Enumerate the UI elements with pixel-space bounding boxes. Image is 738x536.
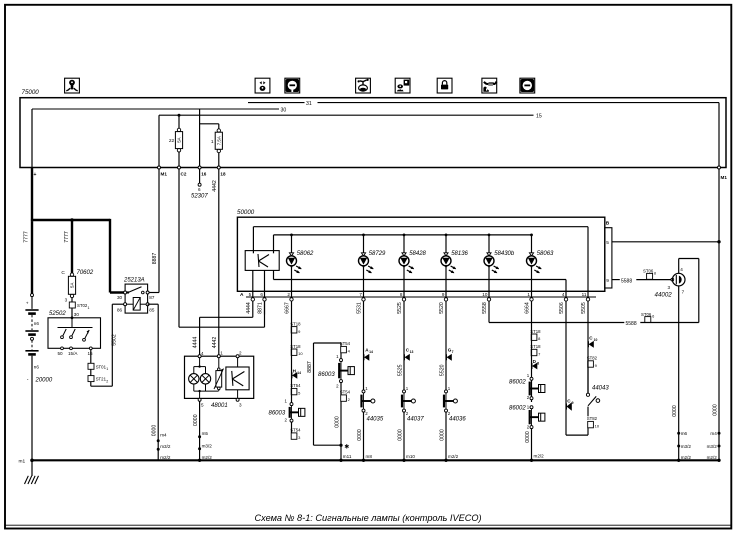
svg-text:4: 4 (562, 292, 565, 297)
svg-text:ST01: ST01 (96, 364, 107, 369)
svg-text:C: C (61, 270, 65, 276)
wire 5506 column with diode C9 (565, 315, 567, 436)
fuse 1 7.5A (218, 124, 220, 129)
terminal 5 of 50000 (251, 298, 254, 301)
pin 4 of 48001 (198, 355, 201, 358)
svg-text:8: 8 (537, 361, 539, 365)
svg-text:1: 1 (527, 292, 530, 297)
pin 1 of 48001 (217, 355, 220, 358)
svg-text:30: 30 (281, 107, 287, 113)
wire 30 drop to terminal 16 with bracket (199, 109, 201, 168)
terminal C2 (178, 166, 181, 169)
pressure switch 86003 second (290, 403, 293, 406)
svg-text:7777: 7777 (24, 231, 30, 243)
svg-text:ST18: ST18 (290, 344, 301, 349)
svg-text:25213A: 25213A (123, 278, 145, 284)
svg-text:13: 13 (410, 350, 414, 354)
svg-text:3: 3 (668, 285, 671, 290)
relay 25213A box (125, 284, 148, 313)
wire 4444 terminal 5 to 48001 pin 4 (252, 315, 254, 318)
svg-text:86003: 86003 (269, 411, 286, 417)
svg-text:1: 1 (211, 139, 214, 145)
svg-text:m8: m8 (366, 454, 373, 459)
svg-text:5A: 5A (177, 137, 182, 142)
wire 0000 below 44037 (403, 412, 405, 460)
svg-text:87: 87 (149, 295, 155, 300)
icon padlock (437, 78, 452, 93)
svg-text:6667: 6667 (285, 302, 291, 314)
svg-text:44002: 44002 (655, 291, 673, 298)
pin 2 of 48001 (236, 355, 239, 358)
svg-text:4442: 4442 (212, 180, 218, 192)
svg-text:6: 6 (260, 292, 263, 297)
fuse 22 5A (178, 115, 180, 128)
svg-text:0000: 0000 (193, 414, 199, 426)
svg-text:m3/2: m3/2 (707, 444, 718, 449)
svg-text:-: - (27, 377, 29, 383)
svg-text:58428: 58428 (409, 251, 426, 257)
wire 8887 from M1 to relay 87 (158, 169, 160, 293)
wire 30 left drop to + terminal (31, 109, 33, 168)
svg-text:1: 1 (220, 350, 223, 355)
terminal 10 of 50000 (487, 298, 490, 301)
svg-text:ST54: ST54 (340, 341, 351, 346)
svg-text:9: 9 (606, 278, 609, 284)
wire column 44037 (403, 315, 405, 390)
svg-text:m4: m4 (710, 431, 717, 436)
svg-text:58729: 58729 (369, 251, 386, 257)
svg-text:20000: 20000 (35, 378, 53, 384)
pin 3 of 48001 (236, 398, 239, 401)
icon cab tilt (255, 78, 270, 93)
svg-text:5520: 5520 (439, 302, 445, 314)
wire 0000 from 48001 pin 5 to bus (199, 401, 201, 460)
svg-text:0000: 0000 (525, 431, 531, 443)
splice m4 left (157, 439, 160, 442)
svg-text:+: + (26, 302, 29, 307)
svg-text:0000: 0000 (151, 425, 157, 437)
svg-text:ST18: ST18 (290, 321, 301, 326)
svg-text:M1: M1 (161, 172, 168, 177)
relay terminal 85 (146, 303, 149, 306)
battery 20000 positive lead (31, 221, 33, 293)
wire rail to lamp 58136 (445, 235, 447, 257)
48001 lamp bottom rail (193, 384, 195, 391)
wire rail to lamp 58428 (403, 235, 405, 257)
svg-text:70602: 70602 (77, 270, 94, 276)
svg-text:0000: 0000 (334, 416, 340, 428)
wire lamp 58430b to terminal 10 (488, 267, 490, 298)
svg-text:3: 3 (65, 298, 68, 303)
terminal 9 of 50000 (444, 298, 447, 301)
wire 8871 stub below terminal 6 (264, 301, 266, 314)
wire 6667 below terminal 2 (291, 301, 293, 314)
icon battery charge (285, 78, 300, 93)
svg-text:ST54: ST54 (340, 390, 351, 395)
terminal 15/A (70, 347, 73, 350)
svg-text:m2/2: m2/2 (681, 455, 692, 460)
svg-text:44037: 44037 (407, 417, 424, 423)
svg-text:m3/2: m3/2 (681, 444, 692, 449)
terminal 7 of 50000 (362, 298, 365, 301)
svg-text:n6: n6 (34, 365, 40, 370)
icon lift axle (395, 78, 410, 93)
box 75000 instrument panel supply (20, 98, 726, 168)
icon seat / cab lock (356, 78, 371, 93)
wire 5525 below terminal 8 (403, 301, 405, 314)
relay terminal 86 (124, 303, 127, 306)
svg-text:58136: 58136 (451, 251, 468, 257)
svg-text:m2/2: m2/2 (160, 455, 171, 460)
48001 internal lamp loop (199, 358, 201, 367)
wire rail to lamp 58063 (531, 235, 533, 257)
svg-text:n6: n6 (34, 321, 40, 326)
svg-text:5525: 5525 (397, 364, 403, 376)
svg-text:86002: 86002 (509, 406, 526, 412)
splice m5 (198, 435, 201, 438)
box 48001 (185, 356, 254, 398)
svg-text:5505: 5505 (581, 302, 587, 314)
svg-text:5558: 5558 (482, 302, 488, 314)
wire lamp 58062 to terminal 2 (291, 267, 293, 298)
ignition switch internal contacts (71, 318, 73, 328)
svg-text:8887: 8887 (152, 253, 158, 265)
svg-text:1: 1 (88, 306, 90, 310)
terminal 18 (217, 166, 220, 169)
pin 5 of 48001 (198, 398, 201, 401)
wire 5502 from ST21 to relay 86 (90, 382, 92, 387)
terminal 4 of 50000 (564, 298, 567, 301)
svg-text:58063: 58063 (537, 251, 554, 257)
svg-text:86: 86 (117, 307, 123, 312)
svg-text:8887: 8887 (307, 361, 313, 373)
wire 4444 below terminal 5 (252, 301, 254, 314)
svg-text:52307: 52307 (191, 194, 208, 200)
svg-text:5: 5 (606, 240, 609, 246)
svg-text:+: + (34, 172, 37, 178)
svg-text:5520: 5520 (439, 364, 445, 376)
svg-text:7: 7 (359, 292, 362, 297)
svg-text:8: 8 (654, 271, 656, 275)
terminal 2 of 50000 (290, 298, 293, 301)
svg-text:58430b: 58430b (494, 251, 515, 257)
svg-text:48001: 48001 (211, 403, 228, 409)
svg-text:ST18: ST18 (530, 344, 541, 349)
wire 30 horizontal (32, 108, 279, 110)
relay terminal 87 (146, 291, 149, 294)
switch 44043 (586, 393, 589, 396)
wire 0000 below 44035 (363, 412, 365, 460)
svg-text:4: 4 (680, 267, 683, 272)
svg-text:8871: 8871 (258, 302, 264, 314)
wire 5558 terminal 10 down (488, 315, 490, 323)
wire rail internal from K to lamps (273, 235, 275, 253)
svg-text:0000: 0000 (712, 404, 718, 416)
svg-text:5: 5 (201, 403, 204, 408)
switch 44036 (445, 390, 448, 393)
svg-text:44043: 44043 (592, 385, 609, 391)
connector ST21 2 (88, 376, 94, 382)
svg-text:1: 1 (106, 367, 108, 371)
svg-text:m6: m6 (681, 431, 688, 436)
wire 5506 below terminal 4 (565, 301, 567, 314)
switch 44037 (403, 390, 406, 393)
svg-text:44036: 44036 (449, 417, 466, 423)
svg-text:m11: m11 (343, 454, 352, 459)
wire 0000 from 44002 pin 7 to bus (678, 286, 680, 460)
terminal M1 right (718, 166, 721, 169)
svg-text:6: 6 (198, 187, 201, 192)
svg-text:2: 2 (239, 350, 242, 355)
svg-text:A: A (240, 292, 244, 298)
column wire to ST54 4 (340, 343, 342, 346)
wire below 44043 (587, 407, 589, 417)
thick battery positive wire 7777 (31, 168, 33, 222)
battery cell 2 (25, 330, 38, 332)
svg-text:m2/2: m2/2 (707, 455, 718, 460)
wire 0000 from relay 85 to ground bus (148, 303, 159, 305)
connector ST01 1 (88, 363, 94, 369)
svg-text:4444: 4444 (246, 302, 252, 314)
svg-text:0000: 0000 (397, 429, 403, 441)
wire bottom link 5506 to 44043 (587, 428, 589, 435)
svg-text:15: 15 (536, 114, 542, 120)
junction loop at m11 (339, 444, 342, 447)
svg-text:18: 18 (220, 172, 226, 177)
svg-text:m3/2: m3/2 (160, 444, 171, 449)
svg-text:86003: 86003 (318, 372, 335, 378)
svg-text:2: 2 (106, 379, 108, 383)
svg-text:M1: M1 (721, 175, 728, 180)
svg-text:m1: m1 (19, 459, 26, 465)
svg-text:ST21: ST21 (96, 377, 107, 382)
connector ST54 3 (291, 422, 293, 433)
wire C internal from K to terminal 4 (273, 270, 275, 279)
wire terminal 16 to 52307 pin 6 (199, 169, 201, 183)
wire 31 horizontal (248, 102, 305, 104)
indicator lamp 58136 (441, 256, 451, 266)
svg-text:14: 14 (369, 350, 373, 354)
svg-text:10: 10 (595, 424, 600, 429)
svg-text:6: 6 (652, 315, 654, 319)
svg-text:50: 50 (58, 351, 64, 356)
svg-text:C2: C2 (181, 172, 187, 177)
junction rail lamp 58428 (403, 234, 406, 237)
svg-text:4: 4 (201, 351, 204, 356)
wire column 44036 (445, 315, 447, 390)
wire 31 right drop to M1 right (718, 103, 720, 168)
wire A internal from K to terminal 11 (252, 227, 254, 254)
svg-text:5502: 5502 (112, 334, 118, 346)
svg-text:14: 14 (297, 371, 301, 375)
icon trailer brake (482, 78, 497, 93)
splice m6 (677, 432, 680, 435)
connector box B (605, 228, 612, 288)
svg-text:5: 5 (249, 292, 252, 297)
svg-text:30: 30 (117, 295, 123, 300)
wire 5588 from B pin 9 to 44002 pin 3 (612, 279, 620, 281)
wire 5588 horizontal to 44002 (489, 322, 624, 324)
svg-text:Схема № 8-1: Сигнальные лампы: Схема № 8-1: Сигнальные лампы (контроль … (254, 513, 481, 523)
terminal strip A of 50000 (246, 296, 596, 298)
junction rail lamp 58729 (362, 234, 365, 237)
svg-text:11: 11 (582, 292, 587, 297)
wire column 44035 (363, 315, 365, 390)
svg-text:2: 2 (287, 292, 290, 297)
box 50000 outer (237, 217, 604, 291)
wire 15 drop to M1 (158, 115, 160, 167)
wire rail to lamp 58430b (488, 235, 490, 257)
wire 5531 below terminal 7 (363, 301, 365, 314)
battery negative lead (31, 356, 33, 461)
svg-text:7777: 7777 (64, 231, 70, 243)
wire 0000 to splice m11 (340, 401, 342, 460)
terminal 1 of 50000 (530, 298, 533, 301)
diode D8 (532, 363, 537, 370)
ground wire m4 right from M1 (718, 169, 720, 460)
svg-text:86002: 86002 (509, 380, 526, 386)
terminal 15 (89, 347, 92, 350)
diode H14 (292, 372, 297, 379)
indicator lamp 58428 (399, 256, 409, 266)
svg-text:m4: m4 (160, 433, 167, 438)
buzzer 44002 (671, 278, 674, 281)
caption separator line (5, 524, 731, 526)
svg-text:7: 7 (452, 350, 454, 354)
wire 4442 from terminal 18 down to 48001 pin 1 (218, 169, 220, 355)
K box pin wires to terminals 5 and 6 (252, 270, 254, 298)
diode A14 (364, 354, 369, 361)
svg-text:ST06: ST06 (641, 312, 652, 317)
svg-text:85: 85 (149, 307, 155, 312)
svg-text:3: 3 (239, 403, 242, 408)
wire 15 horizontal (159, 114, 534, 116)
svg-text:50000: 50000 (237, 209, 255, 216)
terminal 11 of 50000 (586, 298, 589, 301)
svg-text:31: 31 (306, 101, 312, 107)
wire 0000 below 44036 (445, 412, 447, 460)
svg-text:B: B (606, 220, 610, 226)
rheostat in 48001 (218, 358, 220, 368)
svg-text:5531: 5531 (357, 302, 363, 314)
junction rail lamp 58062 (290, 234, 293, 237)
junction rail lamp 58430b (488, 234, 491, 237)
svg-text:75000: 75000 (22, 89, 40, 96)
svg-text:0000: 0000 (439, 429, 445, 441)
diode G7 (447, 354, 452, 361)
svg-text:7.5A: 7.5A (216, 136, 221, 145)
junction fuse 22 tap on line 15 (178, 114, 181, 117)
diode C10 (589, 341, 594, 348)
svg-text:ST82: ST82 (587, 416, 598, 421)
terminal 50 (61, 347, 64, 350)
switch 44035 (362, 390, 365, 393)
svg-text:5506: 5506 (559, 302, 565, 314)
battery cell 3 (25, 350, 38, 352)
battery cell 1 (25, 309, 38, 311)
pressure switch 86003 first (340, 359, 343, 362)
svg-text:ST82: ST82 (587, 356, 598, 361)
ground bus m (31, 459, 719, 461)
wire rail to lamp 58729 (363, 235, 365, 257)
icon ignition key (65, 78, 80, 93)
wire 5505 below terminal 11 (587, 301, 589, 314)
svg-text:ST54: ST54 (290, 428, 301, 433)
wire 5505 column (587, 315, 589, 394)
svg-text:9: 9 (442, 292, 445, 297)
splice m4 right (718, 432, 721, 435)
junction rail lamp 58136 (445, 234, 448, 237)
svg-text:m2/2: m2/2 (534, 453, 545, 458)
svg-text:ST18: ST18 (530, 329, 541, 334)
svg-text:m10: m10 (406, 454, 415, 459)
svg-text:4442: 4442 (212, 337, 218, 349)
svg-text:ST06: ST06 (643, 268, 654, 273)
indicator lamp 58062 (287, 256, 297, 266)
wire 5520 below terminal 9 (445, 301, 447, 314)
svg-text:22: 22 (169, 138, 175, 144)
wire 6664 below terminal 1 (531, 301, 533, 314)
svg-text:5588: 5588 (626, 321, 637, 327)
svg-text:m5: m5 (202, 431, 209, 436)
svg-text:4444: 4444 (193, 337, 199, 349)
svg-text:52502: 52502 (49, 311, 66, 317)
thick wire drop to fuse 70602 with label 7777 (71, 220, 73, 273)
svg-text:9: 9 (572, 401, 574, 405)
svg-text:58062: 58062 (297, 251, 314, 257)
svg-text:m3/2: m3/2 (202, 443, 213, 448)
K unit in 48001 (226, 367, 249, 390)
lamp L2 in 48001 (200, 374, 210, 384)
svg-text:10: 10 (594, 338, 598, 342)
svg-text:m2/2: m2/2 (202, 455, 213, 460)
connector ST54 2 (340, 383, 342, 395)
indicator lamp 58729 (359, 256, 369, 266)
pressure switch 86002 first (530, 377, 533, 380)
junction on battery wire (70, 218, 74, 222)
indicator lamp 58063 (527, 256, 537, 266)
svg-text:10: 10 (298, 351, 303, 356)
relay terminal 30 (124, 291, 127, 294)
junction rail lamp 58063 (530, 234, 533, 237)
diode C13 (405, 354, 410, 361)
junction line 5 with ground wire (717, 240, 720, 243)
svg-text:5588: 5588 (621, 278, 632, 284)
wire 5588 loop up to 44002 pin 4 (698, 259, 700, 323)
svg-text:0000: 0000 (357, 429, 363, 441)
wire rail to lamp 58062 (291, 235, 293, 257)
svg-text:44035: 44035 (367, 417, 384, 423)
svg-text:5525: 5525 (397, 302, 403, 314)
junction battery on bus (30, 459, 34, 463)
svg-text:10: 10 (482, 292, 488, 297)
svg-text:16: 16 (201, 172, 207, 177)
svg-text:7: 7 (682, 290, 685, 295)
svg-text:5A: 5A (70, 283, 75, 288)
wire 8871 from C2 to 50000 terminal 6 (178, 169, 180, 327)
wire lamp 58729 to terminal 7 (363, 267, 365, 298)
terminal 8 of 50000 (402, 298, 405, 301)
wire 8887 bypass loop (314, 342, 342, 344)
svg-text:ST02: ST02 (77, 303, 88, 308)
relay coil (133, 298, 140, 311)
wire 0000 below 86002 (531, 429, 533, 461)
ground symbol (31, 460, 33, 476)
relay contact blade 30-87 (127, 291, 129, 293)
thick wire drop to relay 30 (109, 219, 111, 293)
flasher unit K in 50000 (245, 251, 279, 271)
svg-text:30: 30 (74, 312, 80, 317)
